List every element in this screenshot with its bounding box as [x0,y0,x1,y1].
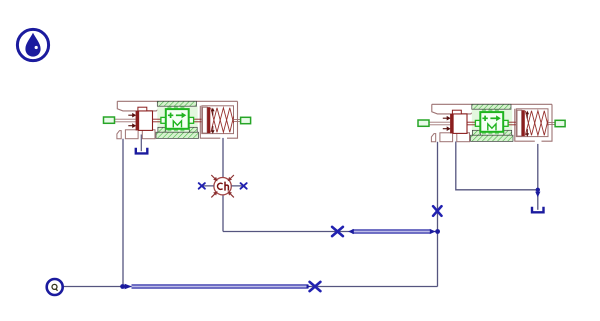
closed crossing X2 on cross line [332,227,343,236]
valve V1 spring housing box [200,101,237,138]
valve V1 pilot arrow lower [128,125,132,127]
valve V1 bottom hatch block left [158,127,166,132]
valve V2 bottom trapezoid pad [431,134,435,142]
valve V2 motor left tab [475,120,480,126]
valve V2 motor top marks [482,110,499,112]
junction node N1 [120,284,125,289]
valve V1 outlet channel [234,119,241,121]
gauge Ch arrow SE [230,194,234,198]
valve V2 spring coil 2 [525,111,548,136]
gauge Ch arrow NW [211,175,215,179]
valve V1 mid channel left [153,119,161,122]
closed crossing X3 on V2 drain riser [433,206,441,216]
flow arrow before X1 pointing right [307,285,311,289]
valve V1 housing top line [117,100,237,102]
wire: valve V2 mid drain to tank junction N3 [456,142,538,190]
valve V2 motor bottom marks [482,132,499,134]
valve V1 motor left tab [161,117,166,123]
valve V2 electro-hydraulic pressure valve [418,104,565,141]
valve V2 bottom hatch block left [472,130,480,135]
valve V1 motor plus glyph [168,113,173,118]
valve V1 bottom pad B [142,130,155,139]
valve V2 bottom pad B [457,133,470,142]
valve V1 spring coil 1 [211,108,234,133]
gauge Ch right x-mark [241,183,247,189]
valve V2 bottom hatch block right [504,130,512,135]
valve V2 port T right plug [555,120,565,126]
valve V2 spring chamber inner box [516,109,548,137]
valve V2 motor box U-M [480,112,503,132]
valve V2 motor letter M [488,124,496,130]
tank T2 [532,207,544,213]
wire: cross line node N2 to valve V1 drain [223,231,438,233]
valve V1 spring chamber inner box [202,106,234,134]
valve V2 spring piston plate [517,110,522,136]
valve V2 spool top notch [452,110,461,114]
valve V1 spring channel [210,119,234,122]
valve V2 mid channel right [508,122,516,125]
closed crossing X1 on supply bus [310,282,321,291]
valve V2 bottom hatch band [471,135,514,141]
hydraulics logo ring [17,29,48,60]
valve V1 top hatch band [157,101,196,106]
wire: valve V1 drain to tank T1 [140,135,142,152]
valve V1 spool bar [136,111,139,130]
valve V1 motor letter M [173,121,181,128]
wire: valve V2 pilot drain down to node N2 [437,142,439,232]
valve V1 spring red bar [207,107,210,133]
flow source Q circle [47,279,63,295]
valve V1 chamber arrow up [212,111,214,116]
junction node N3 [536,188,540,192]
flow arrow at node N1 pointing right [125,284,132,290]
valve V2 motor plus glyph [482,116,487,121]
valve V1 spool box [139,111,153,130]
valve V1 housing left roof [117,101,159,111]
valve V1 spring coil 2 [211,108,234,133]
wire: supply bus from flow source Q to riser [63,286,438,288]
valve V2 top hatch band [472,104,511,109]
valve V2 spring red bar [522,110,525,136]
valve V1 pilot arrow upper [128,114,132,116]
junction node N2 [435,229,440,234]
wire: riser from bus up to node N2 [437,232,439,287]
valve V2 motor right tab [503,120,508,126]
flow source Q label [52,284,58,290]
flow arrow into node N2 pointing right [430,229,436,234]
valve V1 bottom hatch band [156,132,199,138]
gauge Ch arrow SW [211,194,215,198]
valve V1 motor top marks [167,107,184,109]
flow arrow after X2 pointing left [348,229,354,234]
valve V1 green zone [157,106,197,132]
valve V2 pilot arrow upper [443,117,447,119]
valve V2 inlet channel [430,122,451,125]
valve V1 motor right tab [189,117,194,123]
valve V2 green zone [472,109,512,135]
gauge Ch label [218,182,229,191]
valve V2 chamber arrow up [526,114,528,119]
valve V1 inlet channel [115,119,136,122]
wire: valve V2 spring drain down to tank T2 [537,144,539,210]
valve V1 chamber arrow down [212,126,214,131]
valve V1 bottom hatch block right [189,127,197,132]
valve V2 spool box [453,114,467,133]
valve V1 motor bottom marks [167,129,184,131]
valve V2 port P left plug [418,120,429,126]
flow line N1 to X1 (pressurized, double stroke) [132,285,309,288]
valve V1 spool top notch [138,107,147,111]
valve V2 spring housing box [515,104,552,141]
valve V1 mid channel right [194,119,203,122]
valve V1 bottom pad A [125,130,138,139]
valve V2 mid channel left [467,122,475,125]
valve V1 motor box U-M [166,109,189,129]
valve V1 port T right plug [241,117,251,123]
valve V2 motor arrow glyph [490,117,496,119]
wire: valve V1 pilot drain down to node N1 [122,139,124,287]
gauge Ch arrow NE [230,175,234,179]
valve V2 outlet channel [548,122,555,124]
valve V1 bottom trapezoid pad [117,131,121,139]
valve V2 chamber arrow down [526,129,528,134]
valve V2 pilot arrow lower [443,128,447,130]
gauge Ch horizontal probe line [202,185,244,187]
valve V2 housing left roof [432,104,474,114]
flow arrow into tank T2 pointing down [535,192,540,198]
valve V1 motor arrow glyph [176,114,182,116]
flow line X2 to N2 (pressurized, double stroke) [352,230,430,233]
valve V2 bottom pad A [440,133,453,142]
valve V1 spring piston plate [203,107,208,133]
valve V1 electro-hydraulic pressure valve [104,101,251,138]
valve V2 housing top line [432,103,552,105]
gauge Ch left x-mark [199,183,205,189]
valve V2 spring channel [525,122,549,125]
tank T1 [136,148,148,154]
gauge Ch body circle [214,178,231,195]
wire: valve V1 spring drain through gauge Ch [222,138,224,232]
hydraulics logo drop highlight [35,46,38,49]
hydraulics logo drop [25,33,40,57]
valve V2 spool bar [450,114,453,133]
valve V2 spring coil 1 [525,111,548,136]
valve V1 port P left plug [104,117,115,123]
